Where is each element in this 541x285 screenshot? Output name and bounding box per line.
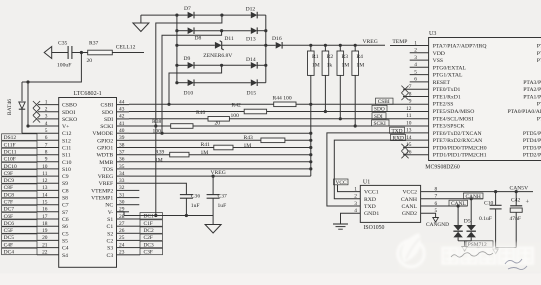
svg-text:S6: S6 <box>62 224 68 230</box>
svg-text:2: 2 <box>354 194 357 200</box>
wire ground to diode row 1 <box>141 14 188 16</box>
svg-text:R2: R2 <box>327 54 334 60</box>
svg-text:PTD5/PID5: PTD5/PID5 <box>523 131 541 137</box>
ground symbol U1 GND1 <box>333 224 348 229</box>
node C11F port and wire to pin 7 <box>2 141 59 148</box>
wire RXD net U3 pin 14 to U1 pin 2 <box>334 140 428 199</box>
wire R3 drop <box>339 75 341 118</box>
wire tap2 from VMODE line to row2 mid node <box>162 31 222 134</box>
resistor R42 100 <box>231 103 267 120</box>
svg-text:TEMP: TEMP <box>392 39 407 45</box>
diode D16 <box>266 36 282 49</box>
U1 pin names <box>364 190 418 218</box>
svg-text:C5: C5 <box>62 231 69 237</box>
wire row5 from left rail <box>177 82 188 84</box>
wire VREG pin 34 <box>129 175 311 177</box>
junction R3 to SDI <box>339 117 342 120</box>
resistor R39 1M <box>155 149 189 163</box>
wire R4 drop <box>354 75 356 126</box>
node CANH label <box>464 193 484 200</box>
node DS12 port and wire to pin 6 <box>2 134 59 141</box>
U2 pins 1-4 stubs <box>38 105 59 126</box>
svg-text:12: 12 <box>406 106 412 112</box>
svg-text:VTEMP1: VTEMP1 <box>91 196 113 202</box>
U3 pins 15-16 stubs with X <box>401 144 428 159</box>
svg-text:U3: U3 <box>429 31 436 37</box>
capacitor C10 0.1uF <box>479 192 502 249</box>
junction C37 top on VREG <box>212 175 215 178</box>
node SDO label <box>372 105 387 112</box>
svg-text:0.1uF: 0.1uF <box>479 216 492 222</box>
svg-text:C3F: C3F <box>144 249 153 255</box>
svg-text:ISO1050: ISO1050 <box>364 225 385 231</box>
svg-text:SCKO: SCKO <box>62 117 77 123</box>
svg-text:PTE3/SPSCK: PTE3/SPSCK <box>433 124 466 130</box>
junction R2 to SDO <box>324 110 327 113</box>
junction tap2 on VMODE line <box>160 132 163 135</box>
wire GPIO2 pin 39 segment <box>129 139 261 141</box>
svg-text:C2F: C2F <box>144 235 153 241</box>
node C2F port on pin 25 <box>129 234 163 241</box>
svg-text:DC10: DC10 <box>4 164 17 170</box>
svg-text:CANH: CANH <box>466 194 481 200</box>
U1 pin numbers <box>354 186 437 214</box>
wire pin 5 C12 <box>22 132 59 134</box>
svg-text:C4F: C4F <box>4 242 13 248</box>
svg-text:D12: D12 <box>246 7 256 13</box>
resistor R4 1M <box>352 45 364 75</box>
svg-text:C5F: C5F <box>4 228 13 234</box>
wire D14 to right rail <box>257 64 266 66</box>
svg-text:CANH: CANH <box>401 197 417 203</box>
svg-text:C1F: C1F <box>144 221 153 227</box>
svg-text:CELL12: CELL12 <box>116 44 136 50</box>
wire left diode rail <box>176 15 178 83</box>
node DC8 port and wire to pin 14 <box>2 191 59 198</box>
junction CANL to D5 <box>457 204 460 207</box>
svg-text:1M: 1M <box>356 63 364 69</box>
svg-text:ZENER6.8V: ZENER6.8V <box>203 53 232 59</box>
wire R43 to rail <box>285 139 311 141</box>
wire row4 from left rail <box>177 64 188 66</box>
junction at C35/R37/V+ node <box>80 51 83 54</box>
wire R39 to rail <box>189 154 311 156</box>
capacitor C36 1uF <box>180 194 200 216</box>
node C10F port and wire to pin 9 <box>2 155 59 162</box>
svg-text:C9F: C9F <box>4 171 13 177</box>
diode D13 <box>246 27 257 42</box>
svg-text:S7: S7 <box>62 210 68 216</box>
svg-text:C7: C7 <box>62 203 69 209</box>
svg-text:PTE5/SDA/MISO: PTE5/SDA/MISO <box>433 109 475 115</box>
node SDI label <box>372 113 386 120</box>
wire D8 to D13 with mid node <box>194 29 251 32</box>
svg-text:S2: S2 <box>107 231 113 237</box>
svg-text:1uF: 1uF <box>218 203 227 209</box>
wire D15 to right rail <box>257 82 266 84</box>
svg-text:GPIO1: GPIO1 <box>97 146 113 152</box>
diode D14 <box>246 57 257 69</box>
svg-text:C42: C42 <box>511 197 521 203</box>
junction C42 top <box>515 190 518 193</box>
svg-text:SDI: SDI <box>374 114 383 120</box>
node DC4 port and wire to pin 22 <box>2 248 59 255</box>
svg-text:DC3: DC3 <box>144 242 154 248</box>
diode D8 <box>188 27 202 41</box>
svg-text:D5: D5 <box>464 218 471 224</box>
wire C35 to R37 junction <box>72 52 88 54</box>
junction tap1 on SCKI line <box>154 124 157 127</box>
svg-text:U1: U1 <box>363 180 370 186</box>
svg-text:D11: D11 <box>224 36 234 42</box>
wire U1 GND1 to ground <box>341 213 361 224</box>
svg-text:SDOI: SDOI <box>62 110 75 116</box>
wire MMB pin 36 to rail <box>129 161 311 163</box>
svg-text:MMB: MMB <box>99 160 113 166</box>
svg-text:SCKI: SCKI <box>100 124 113 130</box>
svg-text:DC4: DC4 <box>4 250 15 256</box>
junction tap1 on V- rail <box>154 214 157 217</box>
node SCKI label <box>372 120 390 127</box>
wire C10 C42 common <box>493 248 516 254</box>
node DC9 port and wire to pin 12 <box>2 177 59 184</box>
svg-text:GND2: GND2 <box>402 211 417 217</box>
diode D10 <box>184 79 195 96</box>
wire tap1 from SCKI rail to row1 mid node <box>156 15 222 215</box>
svg-text:D9: D9 <box>184 56 191 62</box>
svg-text:CAN5V: CAN5V <box>510 186 529 192</box>
junction C10 top <box>494 190 497 193</box>
U2 right pin numbers <box>119 99 125 255</box>
capacitor C35 100uF <box>44 40 72 68</box>
svg-text:VMODE: VMODE <box>92 131 113 137</box>
svg-text:R4: R4 <box>356 54 363 60</box>
resistor R2 1k <box>322 45 333 75</box>
diode D9 <box>184 56 195 69</box>
wire row2 from left rail <box>177 30 188 32</box>
U3 pins 2-6 stubs <box>410 53 429 82</box>
wire GND2 to CANGND port <box>421 213 439 222</box>
svg-text:R41: R41 <box>201 142 211 148</box>
svg-text:11: 11 <box>406 113 411 119</box>
node CELL12 <box>116 44 136 50</box>
svg-text:CSBI: CSBI <box>101 103 114 109</box>
wire tap3 from CSBI line to row4 mid node <box>169 65 222 104</box>
svg-text:D15: D15 <box>247 90 257 96</box>
svg-text:S3: S3 <box>107 246 113 252</box>
svg-text:PTB0: PTB0 <box>537 58 541 64</box>
svg-text:CSBO: CSBO <box>62 103 77 109</box>
junctions R1-R4 tops on VREG rail <box>309 44 357 47</box>
svg-text:R40: R40 <box>196 110 206 116</box>
svg-text:S10: S10 <box>62 167 71 173</box>
wire CSBI net right segment to U3 pin 9 <box>296 103 429 105</box>
svg-text:C11: C11 <box>62 146 71 152</box>
svg-text:PTA1/PIA1: PTA1/PIA1 <box>523 95 541 101</box>
svg-text:D10: D10 <box>184 90 194 96</box>
junction tap3 on CSBI line <box>167 103 170 106</box>
no-connect X marks pins 1-3 <box>33 101 40 123</box>
svg-text:PTE7/RxD2/RXCAN: PTE7/RxD2/RXCAN <box>433 138 483 144</box>
svg-text:C4: C4 <box>62 246 69 252</box>
U2 VTEMP2 VTEMP1 NC stubs <box>129 190 139 204</box>
node C8F port and wire to pin 13 <box>2 184 59 191</box>
svg-text:PTE6/TxD2/TXCAN: PTE6/TxD2/TXCAN <box>433 131 482 137</box>
page edge light band <box>0 274 541 285</box>
svg-text:PTE2/SS: PTE2/SS <box>433 102 454 108</box>
svg-text:DC2: DC2 <box>144 228 154 234</box>
wire SCKI net left segment <box>129 125 171 127</box>
svg-text:DC5: DC5 <box>4 235 15 241</box>
svg-text:PTA0/PIA0/ADP0: PTA0/PIA0/ADP0 <box>507 109 541 115</box>
wire R2 drop <box>324 75 326 111</box>
wire VREG rail top <box>282 44 385 46</box>
svg-text:S9: S9 <box>62 181 68 187</box>
wire R41 to rail <box>233 147 311 149</box>
svg-text:PTB1: PTB1 <box>537 51 541 57</box>
svg-text:PTG0/EXTAL: PTG0/EXTAL <box>433 65 467 71</box>
node DC1 port on pin 28 <box>129 213 163 220</box>
svg-text:1M: 1M <box>244 143 252 149</box>
svg-text:9: 9 <box>409 99 412 105</box>
svg-text:PTE0/TxD1: PTE0/TxD1 <box>433 87 461 93</box>
svg-text:PTD3/PID3: PTD3/PID3 <box>523 145 541 151</box>
D5 value label PSM712 <box>466 241 493 248</box>
wire D5 common to port <box>458 241 471 251</box>
svg-text:RESET: RESET <box>433 80 451 86</box>
svg-text:S8: S8 <box>62 196 68 202</box>
wire TOS pin 35 to rail <box>129 168 311 170</box>
U2 left pin numbers <box>42 99 48 255</box>
svg-text:PTD4/PID4: PTD4/PID4 <box>523 138 541 144</box>
svg-text:DC9: DC9 <box>4 178 15 184</box>
wire V+ node down and left to BAT46 branch <box>22 53 81 83</box>
wire SDO net right segment to U3 pin 12 <box>267 111 429 113</box>
junction at V+ pin wire <box>26 124 29 127</box>
node TXD label <box>390 127 405 134</box>
svg-text:SDO: SDO <box>374 106 385 112</box>
svg-text:GND1: GND1 <box>364 211 379 217</box>
svg-text:DC8: DC8 <box>4 192 15 198</box>
wire D10 to D15 <box>194 82 251 84</box>
wire D13 to right rail <box>257 30 266 32</box>
svg-text:10: 10 <box>406 120 412 126</box>
svg-text:1M: 1M <box>342 63 350 69</box>
svg-text:DC6: DC6 <box>4 221 15 227</box>
svg-text:D8: D8 <box>195 35 202 41</box>
svg-text:MC9S08DZ60: MC9S08DZ60 <box>425 164 460 170</box>
svg-text:VREG: VREG <box>98 174 113 180</box>
junctions pull rail rows 39-35 <box>309 139 312 171</box>
capacitor C37 1uF <box>207 176 227 215</box>
svg-text:PTE4/SCL/MOSI: PTE4/SCL/MOSI <box>433 116 474 122</box>
svg-text:C11F: C11F <box>4 142 16 148</box>
wire TXD net U3 pin 13 to U1 pin 3 <box>327 133 429 206</box>
svg-text:1k: 1k <box>327 63 333 69</box>
node DC11 port and wire to pin 8 <box>2 148 59 155</box>
svg-text:C8: C8 <box>62 188 69 194</box>
U3 pin names <box>433 44 541 159</box>
diode D7 <box>184 6 194 18</box>
svg-text:PTA3/PIA3: PTA3/PIA3 <box>523 80 541 86</box>
svg-text:PTA7/PIA7/ADP7/IRQ: PTA7/PIA7/ADP7/IRQ <box>433 44 488 50</box>
wire SDO net left segment <box>129 111 244 113</box>
resistor R41 1M <box>201 142 234 156</box>
node C4F port and wire to pin 21 <box>2 241 59 248</box>
svg-text:PTC1: PTC1 <box>537 102 541 108</box>
handwritten annotation <box>451 252 527 270</box>
wire SDI net left segment <box>129 118 208 120</box>
node RXD label <box>391 134 406 141</box>
wire D9 to D14 with mid node <box>194 64 251 67</box>
node TEMP port and wire to U3 pin 1 <box>390 39 429 46</box>
svg-text:PTG1/XTAL: PTG1/XTAL <box>433 73 463 79</box>
wire D12 to right rail <box>257 14 266 16</box>
svg-text:C10: C10 <box>62 160 72 166</box>
junctions on right diode rail <box>264 29 267 67</box>
svg-text:R39: R39 <box>155 149 165 155</box>
svg-text:3: 3 <box>354 201 357 207</box>
wire VCC2 net to CAN5V <box>421 191 533 193</box>
junction R1 to CSBI <box>309 103 312 106</box>
node C1F port on pin 27 <box>129 220 163 227</box>
svg-text:VDD: VDD <box>433 51 445 57</box>
svg-text:1M: 1M <box>155 157 163 163</box>
ground symbol under C37 <box>205 216 221 234</box>
node DC10 port and wire to pin 10 <box>2 162 59 169</box>
node DC6 port and wire to pin 18 <box>2 220 59 227</box>
op-amp U1 ISO1050 body <box>360 180 420 231</box>
op-amp U3 MC9S08DZ60 body <box>425 31 541 170</box>
svg-text:R42: R42 <box>232 103 242 109</box>
svg-text:C1: C1 <box>107 224 114 230</box>
svg-text:D7: D7 <box>184 6 191 12</box>
resistor R38 100 <box>152 119 193 134</box>
node C3F port on pin 23 <box>129 248 163 255</box>
node C9F port and wire to pin 11 <box>2 170 59 177</box>
svg-text:R37: R37 <box>89 40 99 46</box>
svg-text:C2: C2 <box>107 238 114 244</box>
svg-text:C12: C12 <box>62 131 72 137</box>
svg-text:RXD: RXD <box>364 197 376 203</box>
resistor R40 20 <box>196 110 229 126</box>
wire GPIO1 pin 38 segment <box>129 147 214 149</box>
svg-text:DC7: DC7 <box>4 207 15 213</box>
junction BAT46 branch <box>26 80 29 83</box>
svg-text:SCKI: SCKI <box>374 121 386 127</box>
resistor R1 1M <box>308 45 320 75</box>
svg-text:C3: C3 <box>107 253 114 259</box>
junction VMODE at rail <box>309 132 312 135</box>
svg-text:DC1: DC1 <box>144 214 154 220</box>
U3 pins 7-8 stubs with X <box>401 86 428 101</box>
node DC5 port and wire to pin 20 <box>2 234 59 241</box>
node CANL label <box>449 200 468 207</box>
junction C36 bottom <box>185 214 188 217</box>
svg-text:PTB2: PTB2 <box>537 44 541 50</box>
svg-text:20: 20 <box>215 120 221 126</box>
junctions on left diode rail <box>175 14 178 85</box>
wire VCC to U1 pin 1 <box>338 185 361 192</box>
U3 pin numbers <box>406 40 417 155</box>
svg-text:PTD2/PID2: PTD2/PID2 <box>523 153 541 159</box>
svg-text:C9: C9 <box>62 174 69 180</box>
node C6F port and wire to pin 17 <box>2 213 59 220</box>
svg-text:SDI: SDI <box>104 117 113 123</box>
svg-text:LTC6802-1: LTC6802-1 <box>73 91 101 97</box>
svg-text:D14: D14 <box>246 57 256 63</box>
op-amp U2 LTC6802-1 body <box>59 91 117 267</box>
svg-text:C10: C10 <box>484 200 494 206</box>
wire R1 drop and VREG pull rail <box>310 75 312 176</box>
svg-text:1M: 1M <box>201 150 209 156</box>
wire CSBI net left segment <box>129 103 274 105</box>
svg-text:NC: NC <box>105 203 113 209</box>
svg-text:WDTB: WDTB <box>96 153 113 159</box>
wire R37 to CELL12 <box>112 52 144 54</box>
wire D7 to D12 with mid node <box>194 14 251 17</box>
svg-text:PTD1/PID1/TPM2CH1: PTD1/PID1/TPM2CH1 <box>433 153 487 159</box>
svg-text:VREF: VREF <box>99 181 114 187</box>
U2 right pin stubs <box>117 105 130 255</box>
svg-text:20: 20 <box>87 58 93 64</box>
svg-text:D13: D13 <box>246 37 256 43</box>
node VCC port <box>334 179 349 186</box>
diode D12 <box>246 7 258 19</box>
transient suppressor D5 PSM712 right element <box>467 199 476 241</box>
wire zener row left <box>177 44 215 46</box>
svg-text:CANL: CANL <box>402 204 418 210</box>
node CAN5V label <box>510 186 529 192</box>
svg-text:PTD0/PID0/TPM2CH0: PTD0/PID0/TPM2CH0 <box>433 145 487 151</box>
svg-text:GPIO2: GPIO2 <box>97 138 113 144</box>
svg-text:SDO: SDO <box>102 110 113 116</box>
svg-text:TXD: TXD <box>364 204 376 210</box>
svg-text:100: 100 <box>231 113 240 119</box>
junction R4 to SCKI <box>354 124 357 127</box>
resistor R37 20 <box>87 40 113 64</box>
zener diode D11 ZENER6.8V <box>203 36 234 59</box>
wire SDI net right segment to U3 pin 11 <box>229 118 428 120</box>
svg-text:PTE1/RxD1: PTE1/RxD1 <box>433 95 461 101</box>
svg-text:S12: S12 <box>62 138 71 144</box>
svg-text:V+: V+ <box>62 124 69 130</box>
svg-text:TXD: TXD <box>392 128 403 134</box>
svg-text:100uF: 100uF <box>57 62 71 68</box>
watermark logo and text <box>398 233 541 272</box>
svg-text:C36: C36 <box>191 194 201 200</box>
node C7F port and wire to pin 15 <box>2 198 59 205</box>
wire V- bottom rail <box>117 212 214 216</box>
D5 reference label <box>464 218 471 224</box>
resistor R3 1M <box>337 45 349 75</box>
svg-text:C6F: C6F <box>4 214 13 220</box>
svg-text:C6: C6 <box>62 217 69 223</box>
svg-text:R38: R38 <box>152 119 162 125</box>
svg-text:VREG: VREG <box>363 39 378 45</box>
U2 pin names <box>62 103 114 259</box>
svg-text:R1: R1 <box>312 54 319 60</box>
junction CANH to D5 <box>470 197 473 200</box>
resistor R43 1M <box>244 135 285 149</box>
node CANGND label <box>426 222 449 228</box>
node C5F port and wire to pin 19 <box>2 227 59 234</box>
wire VMODE pin 40 to pull rail <box>129 132 311 134</box>
node CSBI label <box>376 98 394 105</box>
capacitor C42 47nF electrolytic <box>510 192 530 248</box>
transient suppressor D5 PSM712 left element <box>453 206 462 241</box>
wire WDTB pin 37 segment <box>129 154 170 156</box>
